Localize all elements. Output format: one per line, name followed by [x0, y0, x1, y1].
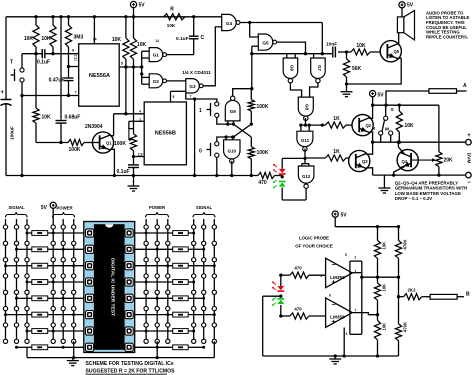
svg-text:−: −: [467, 180, 471, 186]
svg-text:−: −: [332, 302, 336, 309]
svg-text:6: 6: [329, 294, 331, 298]
svg-text:1K: 1K: [333, 116, 340, 122]
svg-text:100K: 100K: [257, 150, 269, 156]
svg-text:8: 8: [345, 253, 347, 257]
svg-text:NE556A: NE556A: [89, 73, 110, 79]
svg-text:1/4 X CD4011: 1/4 X CD4011: [182, 70, 211, 75]
svg-text:10K: 10K: [137, 42, 147, 48]
svg-text:5V: 5V: [378, 93, 385, 99]
svg-text:RIPPLE COUNTERS.: RIPPLE COUNTERS.: [426, 34, 468, 39]
svg-text:10K: 10K: [382, 284, 387, 292]
svg-text:7: 7: [75, 91, 77, 95]
svg-text:G7: G7: [317, 65, 322, 72]
svg-text:10K: 10K: [405, 123, 415, 129]
svg-text:Q1: Q1: [106, 141, 112, 146]
svg-text:470: 470: [294, 266, 302, 271]
svg-text:10nF: 10nF: [326, 42, 337, 48]
svg-text:+: +: [332, 280, 336, 287]
svg-text:8: 8: [72, 49, 74, 53]
svg-text:C: C: [201, 35, 205, 41]
svg-text:2: 2: [355, 256, 357, 260]
svg-text:−: −: [332, 262, 336, 269]
svg-text:0: 0: [199, 149, 202, 155]
svg-text:G1: G1: [153, 53, 160, 58]
svg-text:T: T: [10, 60, 13, 66]
svg-text:10K: 10K: [382, 323, 387, 331]
svg-text:G4: G4: [226, 21, 233, 26]
svg-text:470: 470: [258, 180, 267, 186]
svg-text:SCHEME FOR TESTING DIGITAL ICs: SCHEME FOR TESTING DIGITAL ICs: [86, 361, 174, 367]
svg-text:G6: G6: [290, 65, 295, 72]
svg-text:0.1uF: 0.1uF: [117, 169, 130, 175]
svg-text:0.1uF: 0.1uF: [37, 60, 50, 66]
svg-text:7: 7: [355, 309, 357, 313]
svg-text:10K: 10K: [382, 242, 387, 250]
svg-text:470K: 470K: [403, 322, 408, 332]
svg-text:A: A: [463, 83, 467, 89]
svg-text:10K: 10K: [42, 115, 52, 121]
svg-text:56K: 56K: [352, 66, 362, 72]
svg-text:NE556B: NE556B: [155, 131, 176, 137]
svg-text:0.1uF: 0.1uF: [176, 36, 189, 42]
svg-text:Q5: Q5: [394, 49, 400, 54]
svg-text:G3: G3: [189, 84, 196, 89]
svg-text:1K: 1K: [333, 149, 340, 155]
svg-text:470: 470: [294, 307, 302, 312]
svg-text:2K2: 2K2: [407, 288, 416, 293]
svg-text:G9: G9: [230, 109, 237, 114]
svg-text:LOGIC PROBE: LOGIC PROBE: [299, 236, 329, 241]
svg-text:R: R: [170, 7, 174, 13]
svg-text:SIGNAL: SIGNAL: [8, 205, 25, 210]
svg-text:SUGGESTED R = 2K FOR TTL/CMOS: SUGGESTED R = 2K FOR TTL/CMOS: [86, 369, 176, 375]
svg-text:POWER: POWER: [149, 205, 166, 210]
svg-text:4: 4: [139, 110, 141, 114]
svg-text:5V: 5V: [341, 213, 348, 219]
svg-text:B: B: [466, 292, 470, 298]
svg-text:100K: 100K: [69, 147, 81, 153]
svg-text:5: 5: [121, 62, 123, 66]
svg-text:0.47uF: 0.47uF: [49, 78, 65, 84]
svg-text:G11: G11: [301, 138, 310, 143]
svg-text:+: +: [467, 133, 471, 139]
svg-text:470K: 470K: [403, 239, 408, 249]
svg-text:Q2: Q2: [366, 123, 372, 128]
svg-text:5V: 5V: [139, 3, 146, 9]
svg-text:+: +: [1, 90, 5, 96]
svg-text:10K: 10K: [41, 36, 51, 42]
svg-text:DIGITAL IC UNDER TEST: DIGITAL IC UNDER TEST: [110, 258, 116, 316]
svg-text:Q4: Q4: [402, 159, 408, 164]
svg-text:0.68uF: 0.68uF: [65, 115, 81, 121]
svg-text:G12: G12: [302, 174, 311, 179]
svg-text:7: 7: [190, 95, 192, 99]
svg-text:4: 4: [346, 332, 348, 336]
svg-text:12,13: 12,13: [74, 53, 78, 61]
svg-text:1: 1: [355, 269, 357, 273]
svg-text:20K: 20K: [444, 158, 454, 164]
svg-text:Q3: Q3: [362, 159, 368, 164]
svg-text:10K: 10K: [112, 37, 122, 43]
svg-text:10K: 10K: [24, 36, 34, 42]
svg-text:5: 5: [173, 95, 175, 99]
svg-text:3: 3: [320, 274, 322, 278]
svg-text:M: M: [385, 127, 389, 133]
svg-text:10K: 10K: [356, 43, 366, 49]
svg-text:100K: 100K: [257, 104, 269, 110]
svg-text:G8: G8: [305, 104, 310, 111]
svg-text:SIGNAL: SIGNAL: [196, 205, 213, 210]
svg-text:1: 1: [199, 108, 202, 114]
svg-text:POWER: POWER: [56, 206, 73, 211]
svg-text:DVM: DVM: [466, 153, 472, 164]
svg-text:10K: 10K: [167, 23, 176, 28]
svg-text:+: +: [332, 319, 336, 326]
svg-text:2N3904: 2N3904: [85, 124, 103, 130]
svg-text:OF YOUR CHOICE: OF YOUR CHOICE: [295, 244, 333, 249]
svg-text:5V: 5V: [407, 2, 414, 8]
svg-text:G10: G10: [228, 149, 237, 154]
svg-text:G2: G2: [153, 79, 160, 84]
svg-text:5V: 5V: [41, 205, 48, 211]
svg-text:100uF: 100uF: [10, 126, 16, 140]
svg-text:DROP – 0.1 – 0.2V: DROP – 0.1 – 0.2V: [395, 196, 433, 201]
svg-text:G5: G5: [262, 41, 269, 46]
svg-text:100K: 100K: [114, 141, 126, 147]
svg-text:14: 14: [155, 39, 159, 43]
svg-text:3M3: 3M3: [74, 35, 84, 41]
